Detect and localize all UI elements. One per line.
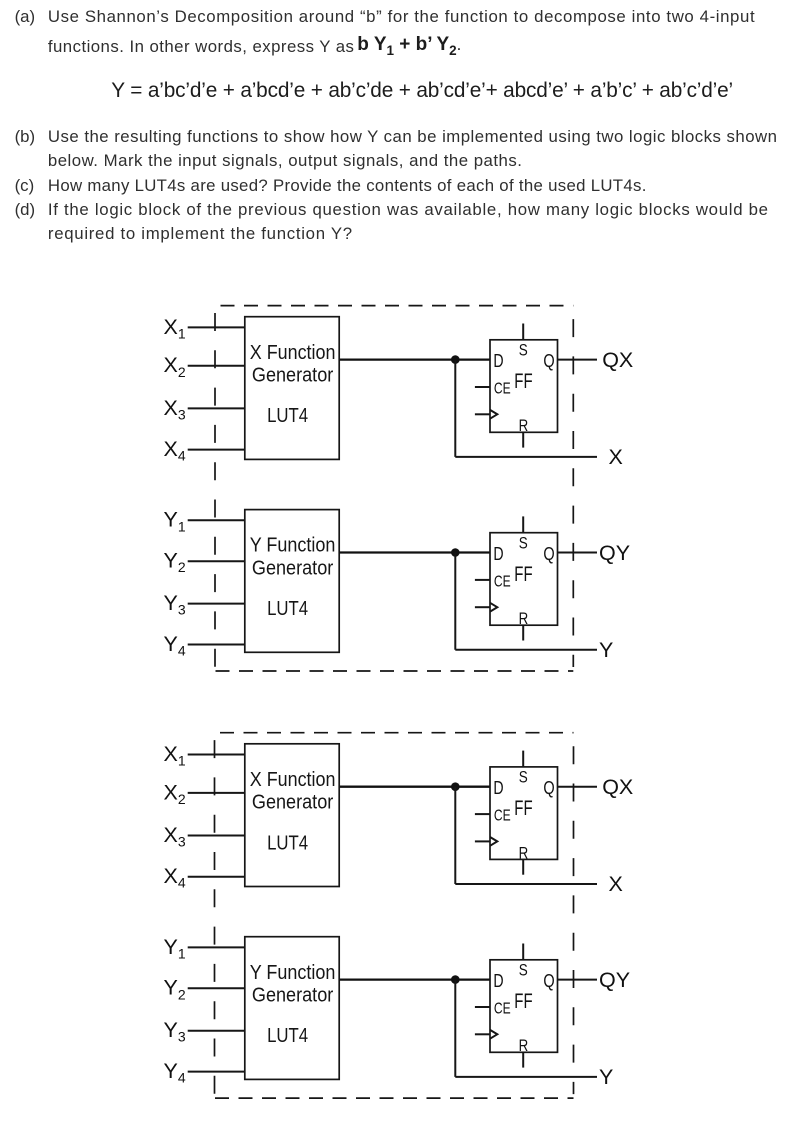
svg-text:QY: QY: [599, 968, 630, 992]
svg-text:S: S: [519, 534, 528, 553]
svg-text:D: D: [493, 778, 503, 798]
svg-text:D: D: [493, 351, 503, 371]
svg-text:LUT4: LUT4: [267, 1025, 308, 1047]
svg-text:X1: X1: [164, 315, 186, 342]
svg-text:Q: Q: [543, 544, 554, 564]
svg-text:Y4: Y4: [164, 1059, 186, 1086]
svg-text:LUT4: LUT4: [267, 832, 308, 854]
svg-text:Y4: Y4: [164, 632, 186, 659]
svg-text:X: X: [609, 445, 623, 469]
svg-text:Y2: Y2: [164, 976, 186, 1003]
svg-text:R: R: [519, 1036, 529, 1055]
svg-text:D: D: [493, 971, 503, 991]
svg-text:Y1: Y1: [164, 508, 186, 535]
svg-text:S: S: [519, 768, 528, 787]
svg-text:CE: CE: [494, 381, 511, 398]
svg-text:LUT4: LUT4: [267, 405, 308, 427]
svg-text:FF: FF: [514, 370, 532, 393]
svg-text:Y3: Y3: [164, 1018, 186, 1045]
svg-text:Y: Y: [599, 638, 613, 662]
svg-text:R: R: [519, 843, 529, 862]
svg-text:Y Function: Y Function: [250, 535, 336, 557]
svg-text:X Function: X Function: [250, 769, 336, 791]
svg-text:QY: QY: [599, 541, 630, 565]
svg-text:Q: Q: [543, 971, 554, 991]
svg-text:LUT4: LUT4: [267, 598, 308, 620]
svg-text:Generator: Generator: [252, 558, 334, 580]
svg-text:X4: X4: [164, 864, 186, 891]
svg-text:FF: FF: [514, 990, 532, 1013]
svg-text:Q: Q: [543, 778, 554, 798]
svg-text:X4: X4: [164, 437, 186, 464]
svg-text:FF: FF: [514, 797, 532, 820]
svg-text:CE: CE: [494, 1001, 511, 1018]
svg-text:CE: CE: [494, 574, 511, 591]
svg-text:X2: X2: [164, 353, 186, 380]
svg-text:S: S: [519, 961, 528, 980]
svg-text:X Function: X Function: [250, 342, 336, 364]
svg-text:Y3: Y3: [164, 591, 186, 618]
svg-text:FF: FF: [514, 563, 532, 586]
svg-text:QX: QX: [602, 348, 633, 372]
svg-text:X3: X3: [164, 396, 186, 423]
svg-text:Q: Q: [543, 351, 554, 371]
svg-text:R: R: [519, 609, 529, 628]
svg-text:Y1: Y1: [164, 935, 186, 962]
svg-text:R: R: [519, 416, 529, 435]
svg-text:Y2: Y2: [164, 549, 186, 576]
svg-text:Generator: Generator: [252, 365, 334, 387]
svg-text:X1: X1: [164, 742, 186, 769]
svg-text:X2: X2: [164, 780, 186, 807]
svg-text:Generator: Generator: [252, 985, 334, 1007]
svg-text:QX: QX: [602, 775, 633, 799]
svg-text:Generator: Generator: [252, 792, 334, 814]
svg-text:Y: Y: [599, 1065, 613, 1089]
svg-text:X3: X3: [164, 823, 186, 850]
svg-text:Y Function: Y Function: [250, 962, 336, 984]
svg-text:X: X: [609, 872, 623, 896]
svg-text:S: S: [519, 341, 528, 360]
svg-text:D: D: [493, 544, 503, 564]
svg-text:CE: CE: [494, 808, 511, 825]
